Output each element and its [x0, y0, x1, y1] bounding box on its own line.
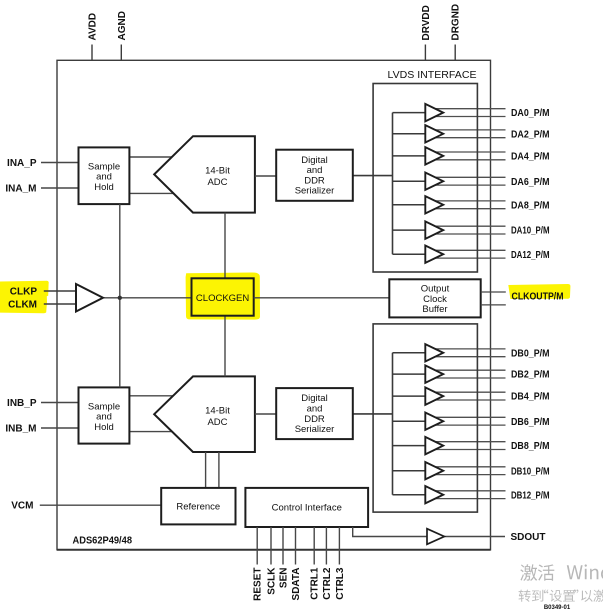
svg-text:Serializer: Serializer: [295, 186, 335, 197]
svg-text:INB_P: INB_P: [7, 398, 37, 409]
svg-text:LVDS INTERFACE: LVDS INTERFACE: [388, 70, 477, 81]
svg-text:CTRL1: CTRL1: [310, 567, 321, 600]
svg-text:DB12_P/M: DB12_P/M: [511, 490, 550, 501]
svg-text:RESET: RESET: [253, 568, 264, 601]
svg-text:VCM: VCM: [11, 501, 33, 512]
svg-text:Hold: Hold: [94, 182, 114, 193]
svg-text:AVDD: AVDD: [88, 13, 99, 41]
svg-text:DB2_P/M: DB2_P/M: [511, 370, 550, 381]
svg-text:Reference: Reference: [176, 501, 220, 512]
svg-text:Buffer: Buffer: [422, 304, 447, 315]
svg-text:CLKM: CLKM: [8, 299, 37, 310]
svg-text:14-Bit: 14-Bit: [205, 166, 230, 177]
svg-text:SCLK: SCLK: [267, 567, 278, 595]
svg-text:CLKP: CLKP: [10, 286, 38, 297]
svg-text:CLKOUTP/M: CLKOUTP/M: [512, 291, 564, 302]
svg-text:AGND: AGND: [117, 11, 128, 40]
svg-text:Serializer: Serializer: [295, 424, 335, 435]
svg-text:DB0_P/M: DB0_P/M: [511, 348, 550, 359]
svg-text:DRVDD: DRVDD: [421, 5, 432, 40]
svg-text:INA_M: INA_M: [5, 184, 36, 195]
svg-text:SDOUT: SDOUT: [511, 532, 546, 543]
svg-text:DA0_P/M: DA0_P/M: [511, 108, 550, 119]
svg-text:ADS62P49/48: ADS62P49/48: [73, 536, 133, 547]
svg-text:DB6_P/M: DB6_P/M: [511, 417, 550, 428]
svg-text:DA8_P/M: DA8_P/M: [511, 200, 550, 211]
svg-text:DB8_P/M: DB8_P/M: [511, 441, 550, 452]
svg-text:DA6_P/M: DA6_P/M: [511, 177, 550, 188]
svg-text:CTRL3: CTRL3: [335, 567, 346, 600]
svg-text:SEN: SEN: [279, 568, 290, 589]
svg-text:14-Bit: 14-Bit: [205, 406, 230, 417]
svg-text:B0349-01: B0349-01: [544, 605, 571, 611]
svg-text:CTRL2: CTRL2: [322, 567, 333, 600]
svg-text:DA4_P/M: DA4_P/M: [511, 152, 550, 163]
svg-text:DA2_P/M: DA2_P/M: [511, 129, 550, 140]
svg-text:DB4_P/M: DB4_P/M: [511, 392, 550, 403]
svg-text:SDATA: SDATA: [291, 568, 302, 601]
svg-text:DRGND: DRGND: [451, 4, 462, 41]
svg-text:ADC: ADC: [207, 417, 227, 428]
svg-text:ADC: ADC: [207, 177, 227, 188]
svg-text:INA_P: INA_P: [7, 158, 37, 169]
svg-text:INB_M: INB_M: [5, 424, 36, 435]
svg-text:CLOCKGEN: CLOCKGEN: [196, 293, 249, 304]
svg-text:DA12_P/M: DA12_P/M: [511, 250, 550, 261]
svg-text:DB10_P/M: DB10_P/M: [511, 466, 550, 477]
svg-text:Hold: Hold: [94, 422, 114, 433]
svg-text:Control Interface: Control Interface: [272, 503, 342, 514]
svg-text:DA10_P/M: DA10_P/M: [511, 226, 550, 237]
